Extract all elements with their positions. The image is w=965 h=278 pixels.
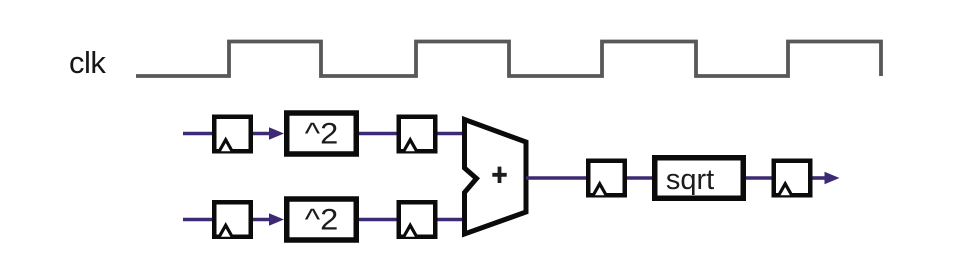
block U1 squarer ^2 (top) xyxy=(287,113,357,154)
wire IN2 stub (bottom input) xyxy=(183,218,213,222)
register R3 (bottom input DFF) xyxy=(214,202,251,237)
wire R3 to U2 (arrow) xyxy=(253,213,284,225)
wire IN1 stub (top input) xyxy=(183,132,213,136)
wire R4 to adder xyxy=(438,218,466,222)
wire U1 to R2 xyxy=(359,132,398,136)
svg-text:sqrt: sqrt xyxy=(666,164,714,196)
clk label xyxy=(69,45,106,80)
svg-text:^2: ^2 xyxy=(305,118,339,151)
register R1 (top input DFF) xyxy=(214,117,251,152)
svg-text:clk: clk xyxy=(69,45,106,80)
wire R1 to U1 (arrow) xyxy=(253,127,284,139)
wire OUT (output arrow) xyxy=(813,172,840,184)
wire U4 to R6 xyxy=(746,176,773,180)
wire R5 to U4 xyxy=(627,176,655,180)
wire R2 to adder xyxy=(438,132,466,136)
register R5 (adder output DFF) xyxy=(588,161,625,196)
block U2 squarer ^2 (bottom) xyxy=(287,199,357,240)
register R6 (output DFF) xyxy=(774,161,811,196)
block U4 sqrt xyxy=(655,158,744,199)
register R4 (bottom pipeline DFF) xyxy=(399,202,436,237)
wire adder to R5 xyxy=(526,176,588,180)
svg-text:^2: ^2 xyxy=(305,204,339,237)
adder U3 xyxy=(465,120,527,235)
clock waveform xyxy=(136,42,881,77)
wire U2 to R4 xyxy=(359,218,398,222)
register R2 (top pipeline DFF) xyxy=(399,117,436,152)
